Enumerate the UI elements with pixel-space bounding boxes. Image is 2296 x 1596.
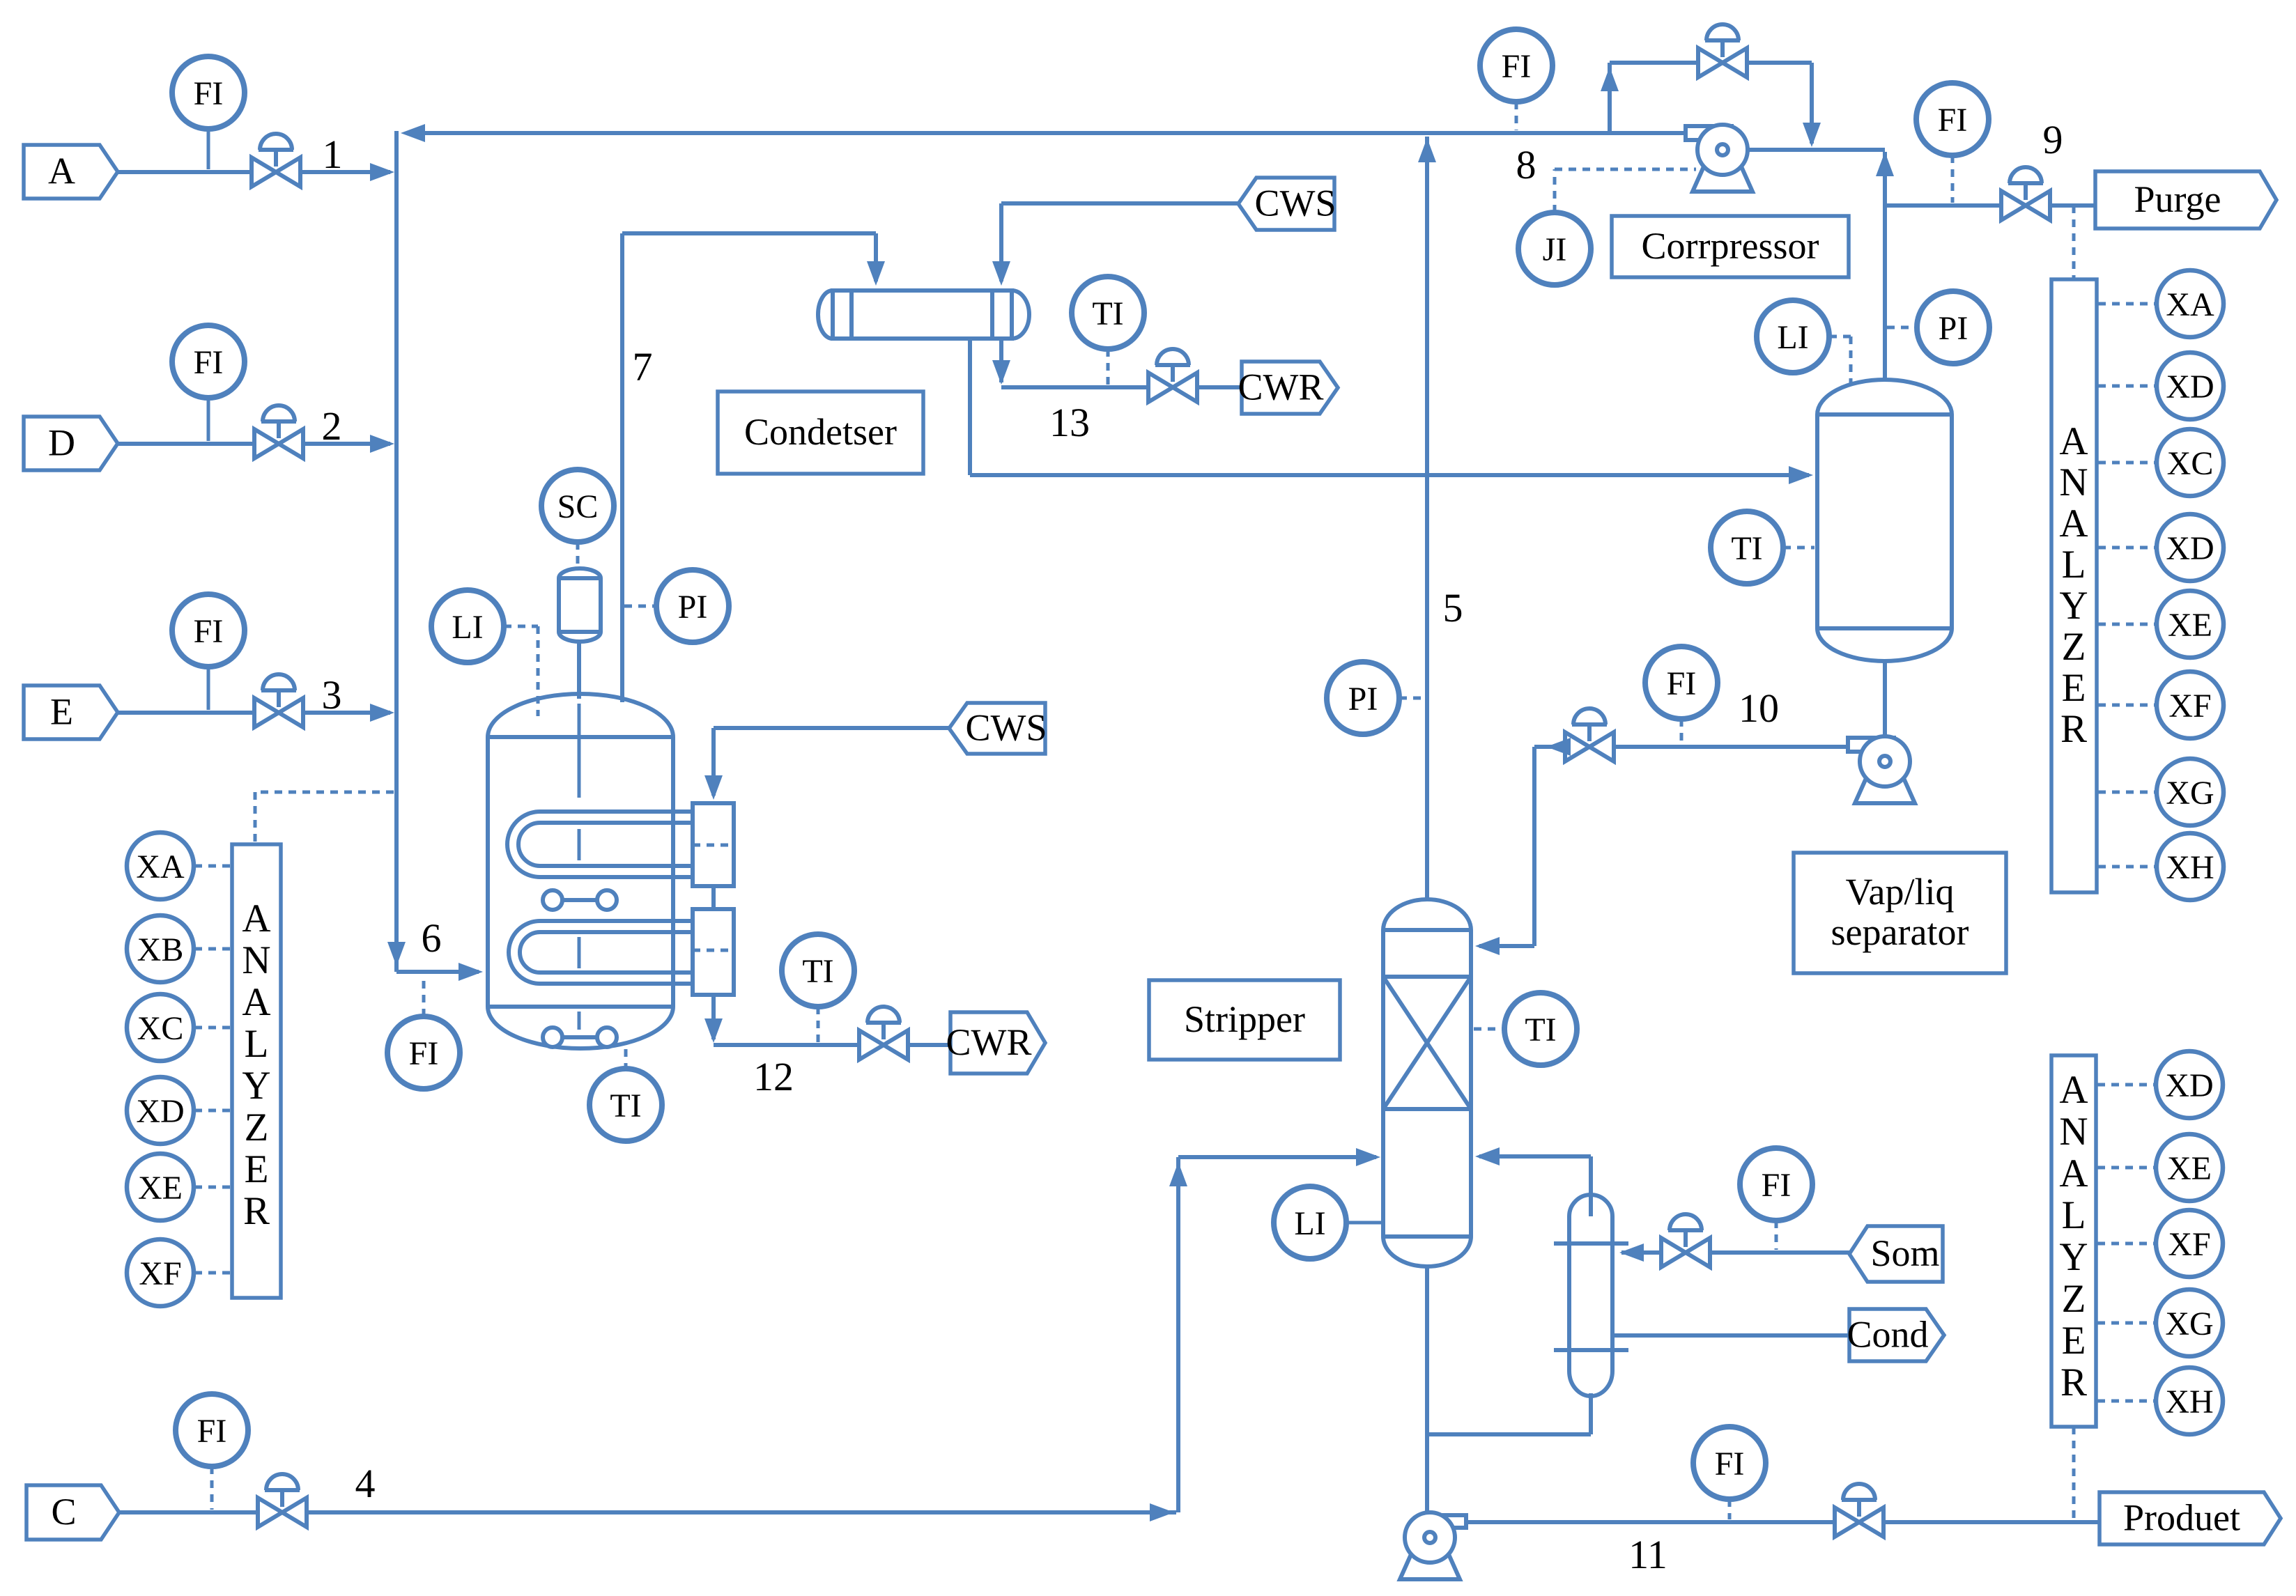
reactor head small vessel bbox=[559, 568, 601, 642]
valve on product line bbox=[1835, 1484, 1883, 1537]
FI dashed stem recycle bbox=[1515, 102, 1518, 130]
feed C line (stream 4) bbox=[119, 1510, 1176, 1514]
svg-text:Produet: Produet bbox=[2123, 1497, 2240, 1539]
arrow into header from feed D bbox=[370, 435, 394, 453]
CWS flag condenser bbox=[1238, 178, 1336, 230]
JI indicator compressor bbox=[1518, 212, 1591, 285]
svg-text:3: 3 bbox=[322, 672, 342, 718]
svg-text:Z: Z bbox=[2062, 625, 2086, 669]
svg-text:XA: XA bbox=[136, 849, 185, 885]
analyzer circle XH purge bbox=[2157, 833, 2224, 900]
FI on stream 10 bbox=[1645, 646, 1718, 719]
dashed XD to left analyzer bbox=[194, 1109, 230, 1113]
svg-text:XC: XC bbox=[137, 1010, 184, 1047]
stream 4 riser to stripper bbox=[1176, 1157, 1180, 1512]
dashed XH purge analyzer bbox=[2098, 865, 2156, 869]
PI on stream 5 bbox=[1327, 662, 1399, 734]
FI dashed stem purge bbox=[1951, 155, 1955, 203]
dashed XE to left analyzer bbox=[194, 1186, 230, 1189]
dashed XC purge analyzer bbox=[2098, 461, 2156, 465]
analyzer circle XG purge bbox=[2157, 759, 2224, 826]
svg-text:XH: XH bbox=[2166, 849, 2214, 886]
svg-text:XD: XD bbox=[2165, 1067, 2213, 1104]
svg-text:Z: Z bbox=[245, 1106, 269, 1149]
flow indicator FI on feed E bbox=[172, 594, 245, 667]
TI dashed stem under reactor bbox=[624, 1049, 628, 1069]
FI on product line bbox=[1693, 1427, 1766, 1499]
analyzer circle XA left bbox=[127, 832, 194, 899]
Som flag bbox=[1849, 1226, 1943, 1282]
stripper bottoms downcomer bbox=[1425, 1266, 1429, 1514]
arrow CWS into condenser bbox=[992, 261, 1010, 286]
connector between blocks bbox=[711, 886, 716, 909]
right ANALYZER box (product) bbox=[2051, 1055, 2096, 1427]
Produet flag bbox=[2099, 1492, 2281, 1544]
arrow stream 6 into reactor bbox=[459, 963, 483, 981]
reactor CWR line (stream 12) bbox=[711, 995, 716, 1039]
CWR flag reactor bbox=[946, 1012, 1045, 1074]
arrow recycle into header bbox=[401, 124, 425, 142]
purge valve bbox=[2001, 167, 2050, 220]
flow indicator FI on feed D bbox=[172, 325, 245, 398]
svg-text:4: 4 bbox=[355, 1461, 376, 1506]
svg-text:E: E bbox=[2062, 1319, 2086, 1363]
arrow stream 10 into stripper bbox=[1475, 937, 1500, 955]
level indicator LI reactor bbox=[431, 590, 504, 663]
svg-text:CWR: CWR bbox=[1238, 366, 1323, 408]
svg-text:13: 13 bbox=[1049, 400, 1090, 445]
svg-text:LI: LI bbox=[1777, 319, 1808, 356]
TI dashed stem condenser bbox=[1107, 349, 1110, 385]
svg-text:R: R bbox=[2060, 1361, 2087, 1404]
svg-text:FI: FI bbox=[1715, 1446, 1745, 1482]
svg-text:L: L bbox=[2062, 1193, 2086, 1237]
compressor suction line from separator bbox=[1748, 148, 1885, 152]
JI dashed horizontal bbox=[1555, 168, 1696, 171]
analyzer circle XG product bbox=[2156, 1289, 2223, 1356]
FI on purge bbox=[1916, 83, 1989, 155]
dashed XD product analyzer bbox=[2097, 1083, 2155, 1087]
down arrow bypass into suction bbox=[1803, 123, 1821, 147]
JI dashed vertical bbox=[1553, 169, 1557, 212]
analyzer circle XF left bbox=[127, 1239, 194, 1306]
analyzer circle XD purge bbox=[2157, 514, 2224, 581]
svg-text:TI: TI bbox=[802, 953, 833, 990]
reactor agitator shaft center line bbox=[578, 704, 581, 798]
PI separator bbox=[1917, 291, 1989, 364]
feed flag A bbox=[24, 145, 118, 199]
bypass valve bbox=[1698, 24, 1747, 77]
TI separator bbox=[1711, 511, 1783, 584]
flow indicator FI on feed A bbox=[172, 56, 245, 129]
svg-text:TI: TI bbox=[1731, 530, 1762, 567]
stream 7 line reactor to condenser bbox=[620, 233, 624, 702]
svg-text:2: 2 bbox=[322, 403, 342, 449]
valve on stream 10 bbox=[1565, 708, 1614, 761]
svg-text:PI: PI bbox=[1939, 310, 1968, 347]
control valve on feed A bbox=[252, 134, 300, 187]
svg-text:XF: XF bbox=[139, 1255, 181, 1292]
svg-text:CWR: CWR bbox=[946, 1021, 1031, 1063]
svg-text:PI: PI bbox=[678, 589, 708, 626]
svg-text:Y: Y bbox=[242, 1064, 270, 1108]
TI dashed stripper bbox=[1474, 1028, 1504, 1031]
temperature indicator TI under reactor bbox=[590, 1069, 662, 1141]
arrow into header from feed A bbox=[370, 163, 394, 181]
svg-text:1: 1 bbox=[323, 132, 343, 177]
analyzer circle XF purge bbox=[2157, 672, 2224, 738]
feed D line (stream 2) bbox=[118, 442, 390, 446]
svg-text:Stripper: Stripper bbox=[1184, 998, 1305, 1040]
sample dashed purge to analyzer bbox=[2072, 206, 2076, 278]
svg-text:R: R bbox=[2060, 707, 2087, 751]
svg-text:Vap/liq: Vap/liq bbox=[1846, 871, 1955, 913]
TI dashed separator bbox=[1783, 546, 1815, 550]
svg-text:A: A bbox=[242, 897, 270, 940]
svg-text:JI: JI bbox=[1543, 231, 1567, 268]
pressure indicator PI reactor bbox=[656, 570, 729, 642]
control valve on feed D bbox=[254, 405, 303, 458]
svg-text:11: 11 bbox=[1628, 1532, 1667, 1577]
reboiler liquid feed from downcomer bbox=[1427, 1432, 1591, 1436]
svg-text:XF: XF bbox=[2168, 688, 2211, 725]
stripper bottoms pump bbox=[1400, 1512, 1466, 1579]
svg-text:FI: FI bbox=[194, 75, 224, 112]
TI on reactor CWR bbox=[782, 934, 854, 1007]
condensate line condenser to separator bbox=[968, 339, 972, 475]
svg-text:TI: TI bbox=[610, 1087, 641, 1124]
valve on condenser CWR bbox=[1148, 349, 1197, 402]
FI dashed stem steam bbox=[1775, 1221, 1778, 1250]
up arrow separator riser bbox=[1876, 152, 1894, 176]
feed A line (stream 1) bbox=[118, 170, 390, 174]
reboiler vapor return to stripper bbox=[1589, 1156, 1593, 1216]
svg-text:L: L bbox=[245, 1022, 269, 1066]
dashed XF to left analyzer bbox=[194, 1271, 230, 1275]
dashed XF product analyzer bbox=[2097, 1242, 2155, 1246]
feed header vertical line bbox=[394, 131, 399, 972]
analyzer circle XC purge bbox=[2157, 429, 2224, 496]
svg-text:E: E bbox=[245, 1147, 269, 1191]
svg-text:XE: XE bbox=[2168, 607, 2212, 644]
svg-text:FI: FI bbox=[1938, 102, 1968, 139]
stream 6 line into reactor bbox=[396, 970, 479, 974]
dashed XC to left analyzer bbox=[194, 1026, 230, 1030]
speed controller SC bbox=[541, 470, 614, 542]
svg-text:A: A bbox=[2059, 419, 2088, 463]
valve on reactor CWR bbox=[859, 1007, 908, 1060]
up arrow bypass riser bbox=[1601, 67, 1619, 91]
svg-text:Purge: Purge bbox=[2134, 178, 2221, 220]
separator overhead riser bbox=[1883, 152, 1887, 380]
dashed XG product analyzer bbox=[2097, 1322, 2155, 1325]
svg-text:Cond: Cond bbox=[1847, 1314, 1928, 1356]
svg-text:FI: FI bbox=[197, 1413, 227, 1450]
svg-text:A: A bbox=[2059, 502, 2088, 545]
reactor upper cooling coil bbox=[507, 812, 695, 877]
dashed XD purge analyzer bbox=[2098, 385, 2156, 388]
svg-text:E: E bbox=[50, 691, 73, 733]
up arrow on stream 4 riser bbox=[1169, 1162, 1187, 1186]
label box Corrpressor bbox=[1612, 216, 1849, 277]
compressor symbol bbox=[1686, 125, 1752, 192]
svg-text:FI: FI bbox=[194, 344, 224, 381]
feed E line (stream 3) bbox=[118, 711, 390, 715]
reactor cooling water exchanger block lower bbox=[693, 909, 734, 995]
dashed XA purge analyzer bbox=[2098, 302, 2156, 306]
dashed XB to left analyzer bbox=[194, 947, 230, 951]
feed flag D bbox=[24, 417, 118, 470]
purge line (stream 9) bbox=[1885, 203, 2095, 208]
dashed mid line upper block bbox=[693, 844, 734, 847]
svg-text:7: 7 bbox=[633, 344, 653, 389]
arrow reboiler vapor into stripper bbox=[1475, 1147, 1500, 1165]
svg-text:XB: XB bbox=[137, 931, 184, 968]
svg-text:TI: TI bbox=[1092, 295, 1123, 332]
label box Stripper bbox=[1149, 980, 1340, 1060]
condenser shell (Condetser) bbox=[818, 290, 1029, 339]
LI separator bbox=[1757, 300, 1829, 373]
svg-text:8: 8 bbox=[1516, 142, 1536, 187]
svg-text:12: 12 bbox=[753, 1054, 794, 1099]
TI on condenser CWR bbox=[1072, 277, 1144, 349]
sample dashed product analyzer to product line bbox=[2072, 1427, 2076, 1520]
svg-text:XA: XA bbox=[2166, 286, 2214, 323]
svg-text:XH: XH bbox=[2165, 1384, 2213, 1420]
analyzer circle XE left bbox=[127, 1154, 194, 1221]
control valve on feed C bbox=[258, 1474, 307, 1527]
condenser CWR outlet (stream 13) bbox=[999, 339, 1003, 382]
compressor bypass line bbox=[1608, 63, 1612, 131]
FI stem feed A bbox=[207, 129, 210, 169]
svg-text:N: N bbox=[2059, 1110, 2088, 1154]
svg-text:Som: Som bbox=[1870, 1232, 1939, 1274]
dashed mid line lower block bbox=[693, 949, 734, 952]
svg-text:FI: FI bbox=[1667, 665, 1697, 702]
reactor CWS line bbox=[714, 726, 949, 730]
svg-text:LI: LI bbox=[452, 609, 483, 646]
arrow into header from feed E bbox=[370, 704, 394, 722]
arrow down from lower block bbox=[704, 1018, 723, 1043]
PI dashed stem stream 5 bbox=[1399, 697, 1424, 700]
dashed XA to left analyzer bbox=[194, 865, 230, 868]
FI dashed stem stream 6 bbox=[422, 975, 426, 1016]
svg-text:9: 9 bbox=[2043, 117, 2063, 162]
down arrow at header bottom corner bbox=[387, 942, 406, 966]
reactor agitator impeller middle bbox=[543, 890, 617, 910]
FI dashed stem product bbox=[1728, 1499, 1732, 1519]
Cond flag bbox=[1847, 1309, 1944, 1361]
shaft dash 2 bbox=[578, 937, 581, 968]
svg-text:LI: LI bbox=[1294, 1205, 1325, 1242]
svg-text:TI: TI bbox=[1525, 1012, 1556, 1048]
FI dashed stem stream 10 bbox=[1680, 719, 1684, 744]
shaft dash 3 bbox=[578, 1012, 581, 1030]
LI dashed horizontal separator bbox=[1829, 335, 1851, 339]
svg-text:XD: XD bbox=[2166, 369, 2214, 405]
label box Condetser bbox=[718, 392, 923, 474]
reactor cooling water exchanger block upper bbox=[693, 803, 734, 886]
flow indicator FI on feed C bbox=[176, 1394, 248, 1466]
LI dashed drop separator bbox=[1849, 336, 1853, 390]
svg-text:CWS: CWS bbox=[965, 707, 1047, 749]
dashed XH product analyzer bbox=[2097, 1400, 2155, 1403]
reboiler exchanger bbox=[1554, 1195, 1628, 1396]
sample dashed line from header to left analyzer bbox=[255, 791, 394, 794]
separator bottoms line to pump bbox=[1883, 660, 1887, 737]
Purge flag bbox=[2095, 171, 2276, 228]
svg-text:XD: XD bbox=[2166, 530, 2214, 567]
analyzer circle XH product bbox=[2156, 1368, 2223, 1434]
up arrow stream 5 into recycle bbox=[1418, 138, 1436, 162]
dashed XE purge analyzer bbox=[2098, 623, 2156, 626]
dashed XE product analyzer bbox=[2097, 1166, 2155, 1170]
svg-text:A: A bbox=[48, 150, 75, 192]
TI dashed stem CWR bbox=[817, 1007, 820, 1042]
right ANALYZER box (purge) bbox=[2051, 279, 2097, 892]
reactor lower cooling coil bbox=[509, 921, 695, 984]
left ANALYZER box bbox=[232, 844, 281, 1298]
reactor agitator impeller bottom bbox=[543, 1028, 617, 1047]
svg-text:XC: XC bbox=[2167, 445, 2214, 482]
svg-text:FI: FI bbox=[409, 1035, 439, 1072]
stripper column bbox=[1383, 899, 1471, 1266]
svg-text:6: 6 bbox=[422, 915, 442, 961]
feed flag C bbox=[26, 1485, 119, 1540]
condenser CWS inlet line bbox=[1001, 201, 1238, 206]
svg-text:10: 10 bbox=[1739, 685, 1779, 731]
arrow CWS into upper block bbox=[704, 775, 723, 800]
svg-text:L: L bbox=[2062, 543, 2086, 587]
svg-text:C: C bbox=[51, 1491, 76, 1533]
svg-text:XD: XD bbox=[136, 1093, 184, 1130]
separator bottoms pump bbox=[1848, 736, 1915, 803]
PI dashed to stream 7 line bbox=[624, 605, 656, 608]
svg-text:XG: XG bbox=[2166, 775, 2214, 812]
feed flag E bbox=[24, 685, 118, 739]
analyzer circle XE product bbox=[2156, 1134, 2223, 1201]
LI dashed drop to dome bbox=[537, 626, 540, 716]
LI solid line stripper bbox=[1346, 1221, 1383, 1225]
svg-text:A: A bbox=[2059, 1152, 2088, 1195]
analyzer circle XE purge bbox=[2157, 591, 2224, 658]
arrow down condenser CWR bbox=[992, 360, 1010, 385]
dashed XF purge analyzer bbox=[2098, 704, 2156, 707]
svg-text:A: A bbox=[2059, 1068, 2088, 1112]
dashed XD purge analyzer bbox=[2098, 546, 2156, 550]
TI stripper bbox=[1504, 993, 1577, 1065]
svg-text:R: R bbox=[243, 1189, 270, 1233]
svg-text:XE: XE bbox=[138, 1170, 183, 1207]
svg-text:N: N bbox=[2059, 460, 2088, 504]
label box Vap/liq separator bbox=[1794, 853, 2006, 973]
line small vessel to reactor dome bbox=[577, 642, 581, 699]
svg-text:D: D bbox=[48, 422, 75, 464]
stream 4 horizontal into stripper bbox=[1178, 1155, 1376, 1159]
svg-text:PI: PI bbox=[1348, 681, 1378, 718]
FI stem feed D bbox=[207, 398, 210, 441]
analyzer circle XA purge bbox=[2157, 270, 2224, 337]
svg-text:Y: Y bbox=[2059, 1235, 2088, 1279]
FI stem feed C dashed bbox=[210, 1466, 214, 1510]
condensate (Cond) line from reboiler bbox=[1612, 1333, 1849, 1338]
svg-text:E: E bbox=[2062, 666, 2086, 710]
recycle line (stream 8 return) bbox=[422, 131, 1686, 135]
valve on steam line bbox=[1661, 1214, 1710, 1267]
CWS flag reactor bbox=[949, 703, 1047, 754]
FI stem feed E bbox=[207, 667, 210, 710]
left arrow on stream 10 bbox=[1546, 738, 1571, 756]
analyzer circle XF product bbox=[2156, 1210, 2223, 1277]
dashed XG purge analyzer bbox=[2098, 791, 2156, 794]
svg-text:Condetser: Condetser bbox=[744, 411, 897, 453]
control valve on feed E bbox=[254, 674, 303, 727]
stream 10 line to stripper bbox=[1592, 745, 1849, 749]
LI dashed horizontal bbox=[504, 625, 538, 628]
arrow steam into reboiler bbox=[1619, 1244, 1644, 1262]
svg-text:separator: separator bbox=[1831, 911, 1969, 953]
sample dashed drop to left analyzer bbox=[254, 792, 257, 842]
FI on recycle line bbox=[1480, 29, 1553, 102]
svg-text:XG: XG bbox=[2165, 1306, 2213, 1342]
analyzer circle XD product bbox=[2156, 1051, 2223, 1118]
svg-text:XE: XE bbox=[2167, 1150, 2212, 1187]
arrow stream 7 into condenser bbox=[867, 261, 885, 286]
svg-text:Y: Y bbox=[2059, 584, 2088, 628]
reactor vessel (Peactor) bbox=[488, 694, 673, 1048]
PI dashed separator bbox=[1887, 326, 1917, 330]
product line stream 11 bbox=[1467, 1520, 2099, 1524]
svg-text:5: 5 bbox=[1443, 585, 1463, 630]
svg-text:CWS: CWS bbox=[1254, 183, 1336, 224]
FI on steam line bbox=[1740, 1148, 1812, 1221]
svg-text:XF: XF bbox=[2168, 1226, 2210, 1263]
CWR flag condenser bbox=[1238, 362, 1338, 414]
svg-text:Z: Z bbox=[2062, 1277, 2086, 1321]
svg-text:FI: FI bbox=[1762, 1167, 1792, 1204]
shaft dash 1 bbox=[578, 829, 581, 860]
flow indicator FI on stream 6 bbox=[387, 1016, 460, 1089]
arrow on C feed before riser bbox=[1150, 1503, 1174, 1521]
stream 5 line stripper overhead bbox=[1425, 137, 1429, 899]
arrow into separator bbox=[1789, 466, 1813, 484]
svg-text:FI: FI bbox=[1502, 48, 1532, 85]
arrow into stripper from stream 4 bbox=[1356, 1148, 1380, 1166]
svg-text:Corrpressor: Corrpressor bbox=[1642, 225, 1819, 267]
svg-text:A: A bbox=[242, 980, 270, 1024]
svg-text:N: N bbox=[242, 938, 270, 982]
LI stripper bbox=[1274, 1186, 1346, 1259]
analyzer circle XC left bbox=[127, 994, 194, 1061]
steam (Som) line to reboiler bbox=[1621, 1250, 1849, 1255]
analyzer circle XB left bbox=[127, 915, 194, 982]
svg-text:SC: SC bbox=[557, 488, 599, 525]
svg-text:FI: FI bbox=[194, 613, 224, 650]
analyzer circle XD left bbox=[127, 1077, 194, 1144]
vapor/liquid separator vessel bbox=[1817, 380, 1952, 661]
SC dashed stem bbox=[576, 542, 580, 567]
analyzer circle XD purge bbox=[2157, 352, 2224, 419]
